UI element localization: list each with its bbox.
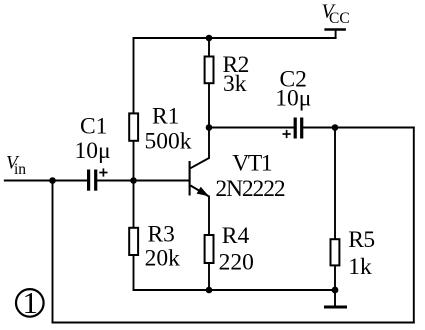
label R4 value [219, 223, 254, 275]
label Vcc [322, 1, 350, 27]
wire R2 to collector node [208, 84, 210, 127]
svg-text:R3: R3 [148, 222, 175, 248]
wire ground rail [134, 289, 336, 291]
wire Vin input [5, 180, 87, 182]
resistor R3 [129, 228, 138, 255]
circuit number badge 1 [16, 285, 44, 320]
svg-text:10μ: 10μ [75, 138, 111, 164]
wire R5 to ground node [334, 266, 336, 290]
label R5 value [348, 227, 374, 280]
label C1 value [75, 114, 111, 164]
label C2 value [275, 67, 311, 112]
node dot Vin feedback tap [49, 177, 56, 184]
resistor R1 [129, 113, 138, 140]
resistor R5 [331, 239, 340, 265]
wire base node to R3 [133, 181, 135, 227]
node dot output [332, 124, 339, 131]
capacitor C1 plus sign [99, 168, 107, 176]
wire emitter vertical [208, 197, 210, 235]
wire C1 to base [97, 180, 188, 182]
label VT1 type [215, 150, 284, 201]
svg-text:1k: 1k [348, 254, 372, 280]
resistor R2 [205, 57, 214, 84]
wire left vertical feedback [52, 181, 54, 323]
label R1 value [145, 103, 192, 154]
wire ground stub [334, 290, 336, 307]
wire collector node to C2 [209, 127, 294, 129]
label R3 value [145, 222, 181, 272]
svg-text:R5: R5 [348, 227, 374, 253]
svg-text:VT1: VT1 [232, 150, 272, 176]
wire R1 branch upper [133, 38, 135, 112]
wire output node to R5 [334, 128, 336, 239]
transistor VT1 [190, 158, 209, 197]
node dot base [130, 177, 137, 184]
svg-text:1: 1 [22, 285, 38, 320]
svg-text:3k: 3k [223, 71, 247, 97]
node dot collector [206, 124, 213, 131]
svg-text:2N2222: 2N2222 [215, 176, 284, 202]
node dot R2 top rail [206, 35, 213, 42]
wire VCC tick [335, 30, 337, 39]
node dot R4 ground [206, 287, 213, 294]
capacitor C2 plus sign [283, 130, 291, 138]
label Vin [6, 152, 26, 178]
wire C2 to output node [303, 127, 414, 129]
power VCC terminal bar [324, 28, 346, 31]
svg-text:R4: R4 [222, 223, 250, 249]
ground symbol bar [324, 306, 347, 309]
capacitor C1 plates [89, 170, 96, 191]
wire top supply rail [134, 37, 336, 39]
capacitor C2 plates [295, 118, 302, 139]
wire R3 bottom to ground rail [133, 256, 135, 290]
wire right vertical feedback [413, 128, 415, 323]
svg-text:in: in [14, 161, 26, 178]
svg-text:CC: CC [329, 10, 350, 27]
svg-text:10μ: 10μ [275, 86, 311, 112]
wire R4 to ground rail [208, 264, 210, 290]
wire R1 to base node [133, 142, 135, 181]
svg-text:500k: 500k [145, 128, 192, 154]
node dot R5 ground [332, 287, 339, 294]
svg-text:220: 220 [219, 249, 254, 275]
wire bottom feedback [53, 322, 414, 324]
svg-text:20k: 20k [145, 246, 181, 272]
wire R2 branch upper [208, 38, 210, 56]
svg-text:R1: R1 [152, 103, 179, 129]
wire collector vertical [208, 128, 210, 159]
svg-text:C1: C1 [80, 114, 107, 140]
resistor R4 [205, 235, 214, 263]
label R2 value [223, 52, 249, 97]
